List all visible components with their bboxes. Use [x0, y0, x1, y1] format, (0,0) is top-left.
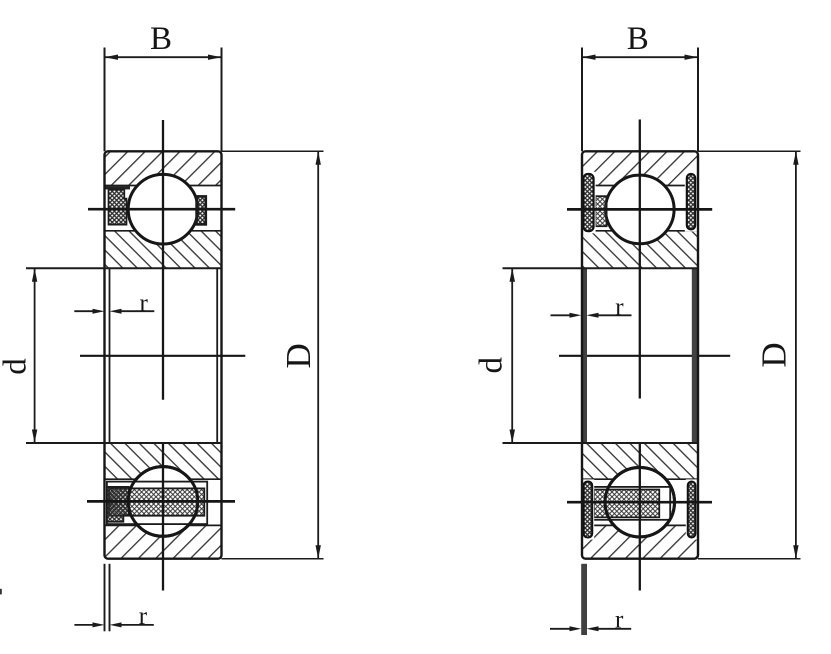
below-bearing chamfer line — [109, 564, 111, 632]
cage band bottom — [594, 490, 659, 518]
dimension d line — [34, 268, 36, 443]
r dimension bottom: tails — [74, 624, 93, 626]
svg-text:r: r — [615, 294, 624, 321]
shield box top-left — [109, 190, 127, 225]
cage box top-left — [595, 196, 606, 226]
arrow B left — [582, 55, 596, 60]
cage band bottom — [109, 488, 204, 515]
bore line top — [503, 267, 699, 269]
D extension bottom — [698, 558, 801, 560]
ball bottom — [605, 468, 674, 537]
arrow D bottom — [793, 545, 798, 559]
r bottom arrows — [570, 626, 582, 631]
svg-text:D: D — [279, 343, 318, 368]
bore line top — [26, 267, 222, 269]
chamfer line left — [109, 268, 111, 443]
svg-text:D: D — [755, 342, 794, 367]
face extension line right — [221, 48, 223, 152]
outer ring hatch bottom section — [105, 525, 222, 558]
below-bearing face line — [104, 564, 106, 632]
inner ring hatch top section — [105, 231, 222, 269]
vertical centerline top — [639, 120, 641, 399]
vertical centerline bottom — [639, 443, 641, 590]
thick bore face right — [692, 268, 698, 443]
outer ring boundary line bottom — [582, 524, 698, 526]
dimension D line — [317, 151, 319, 558]
inner ring boundary line bottom — [105, 478, 222, 480]
vertical centerline bottom — [162, 443, 164, 590]
r dimension middle: tails — [551, 314, 571, 316]
face extension line left — [581, 48, 583, 152]
D extension bottom — [222, 558, 324, 560]
svg-text:d: d — [0, 358, 34, 375]
arrow d top — [32, 268, 37, 282]
face extension line left — [104, 48, 106, 152]
cage pocket bottom — [107, 482, 207, 524]
cage pocket bottom — [593, 487, 670, 520]
arrow D bottom — [316, 545, 321, 559]
shield box top-right — [197, 196, 206, 224]
thick below-bearing line — [581, 564, 587, 635]
seal bottom-left — [584, 482, 593, 538]
seal top-right — [687, 174, 695, 230]
r dimension middle: tails — [74, 310, 93, 312]
r mid arrows — [93, 309, 105, 314]
outer ring boundary line bottom — [105, 524, 222, 526]
inner ring hatch bottom section — [582, 443, 698, 479]
outer ring hatch top section — [582, 151, 698, 185]
thick bore face left — [581, 268, 587, 443]
inner ring hatch bottom section — [105, 443, 222, 479]
dimension d line — [511, 268, 513, 443]
arrow B left — [105, 55, 119, 60]
seal top-left — [583, 174, 593, 231]
arrow d bottom — [510, 430, 516, 444]
vertical centerline top — [162, 120, 164, 400]
ball centerline bottom — [87, 500, 235, 503]
seal halo bottom-left — [582, 479, 595, 539]
svg-text:r: r — [140, 290, 149, 317]
inner ring outer boundary line top — [105, 230, 222, 232]
ball centerline bottom — [567, 501, 712, 504]
ball bottom outline redraw — [605, 468, 674, 537]
dimension D line — [795, 151, 797, 558]
seal halo bottom-right — [686, 479, 698, 539]
arrow B right — [685, 55, 699, 60]
r mid arrows — [570, 313, 582, 318]
inner ring hatch top section — [582, 231, 698, 269]
ball bottom outline redraw — [128, 467, 198, 537]
arrow B right — [208, 55, 222, 60]
D extension top — [222, 150, 324, 152]
face extension line right — [697, 48, 699, 152]
svg-text:B: B — [627, 21, 649, 57]
r bottom arrows — [93, 622, 105, 627]
main axis line — [559, 355, 730, 357]
dimension B line — [105, 56, 222, 58]
svg-text:r: r — [139, 603, 148, 630]
inner ring boundary line bottom — [582, 478, 698, 480]
shield box bottom-left — [107, 487, 129, 522]
inner ring outer boundary line top — [582, 230, 698, 232]
ball centerline top — [567, 208, 712, 211]
outer ring inner boundary line top — [582, 185, 698, 187]
outer ring hatch bottom section — [582, 525, 698, 558]
bore line bottom — [26, 442, 222, 444]
arrow d top — [510, 268, 516, 282]
arrow D top — [316, 151, 321, 165]
bearing outline — [582, 151, 698, 558]
D extension top — [698, 150, 801, 152]
dimension B line — [582, 56, 698, 58]
arrow d bottom — [32, 430, 37, 444]
ball top — [128, 174, 198, 244]
main axis line — [80, 355, 245, 357]
seal bottom-right — [688, 482, 696, 538]
svg-text:d: d — [474, 357, 510, 374]
seal halo top-right — [685, 172, 697, 232]
ball top — [606, 175, 675, 244]
r dimension bottom: tails — [550, 628, 570, 630]
ball bottom — [128, 467, 198, 537]
seal halo top-left — [582, 172, 596, 234]
outer ring inner boundary line top — [105, 185, 222, 187]
bearing outline — [105, 151, 222, 558]
outer ring hatch top section — [105, 151, 222, 185]
svg-text:B: B — [150, 21, 172, 57]
stray mark left edge — [0, 589, 2, 595]
chamfer line right — [216, 268, 218, 443]
bore line bottom — [503, 442, 699, 444]
shield cap line top-left — [106, 186, 131, 189]
arrow D top — [793, 151, 798, 165]
ball centerline top — [88, 208, 235, 211]
svg-text:r: r — [615, 607, 624, 634]
